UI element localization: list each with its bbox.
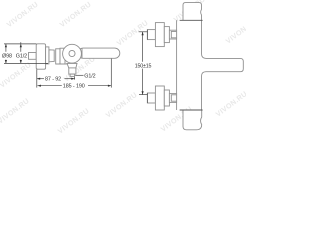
dim vertical 150±15: [142, 32, 144, 62]
extension under spout: [74, 77, 76, 80]
top union: connector A: [147, 30, 155, 40]
svg-text:185 - 190: 185 - 190: [63, 84, 85, 90]
body tube: [60, 48, 65, 64]
svg-text:VIVON.RU: VIVON.RU: [5, 0, 40, 29]
dim line 87-92: [37, 78, 44, 80]
lever handle: [78, 48, 120, 58]
dimension graphics, right view: [139, 32, 148, 95]
knob circle: [63, 44, 82, 63]
dim texts left view: [2, 54, 96, 90]
leader G1/2 spout: [75, 74, 83, 76]
extension line bottom (body): [4, 62, 48, 64]
top union: block C: [164, 27, 169, 43]
spout threaded stub: [70, 74, 74, 76]
tapered sleeve: [49, 50, 54, 62]
arrowheads left view: [5, 44, 112, 87]
svg-text:VIVON.RU: VIVON.RU: [214, 89, 246, 119]
body flange: [56, 49, 60, 64]
spout neck taper: [67, 63, 77, 68]
arrow up 150 top: [142, 32, 144, 35]
bottom flange line: [180, 109, 203, 111]
top union: escutcheon B: [155, 23, 164, 47]
arrow up G1/2 top: [20, 44, 22, 47]
top union: nut D: [169, 30, 176, 39]
svg-text:150±15: 150±15: [135, 63, 152, 69]
svg-text:VIVON.RU: VIVON.RU: [104, 90, 139, 120]
svg-text:VIVON.RU: VIVON.RU: [56, 106, 91, 135]
top union: nut inner bracket: [171, 31, 176, 37]
accent edges: [146, 30, 148, 40]
dim vertical G1/2: [20, 42, 22, 52]
svg-text:G1/2: G1/2: [16, 54, 27, 60]
body outline with spout protrusion: [177, 20, 244, 110]
connector block: [46, 47, 49, 64]
extension line top inlet: [139, 31, 148, 33]
bottom union: nut inner bracket: [171, 95, 176, 101]
extension line bottom inlet: [139, 94, 148, 96]
arrow down Ø98 bottom: [5, 60, 7, 63]
watermark tiles: [0, 0, 259, 136]
lever joint line: [81, 48, 83, 58]
svg-text:VIVON.RU: VIVON.RU: [0, 60, 33, 90]
top flange line: [180, 19, 203, 21]
arrow up Ø98 top: [5, 44, 7, 47]
svg-text:VIVON.RU: VIVON.RU: [58, 0, 93, 29]
bottom union: block C: [164, 90, 169, 106]
bottom union: nut D: [169, 94, 176, 103]
svg-text:Ø98: Ø98: [2, 54, 12, 60]
dim line 185-190: [38, 85, 62, 87]
bottom cap handle with grip notch: [183, 110, 202, 130]
dimension graphics, left view: [4, 42, 111, 87]
arrow down G1/2 bottom: [20, 60, 22, 63]
spout body: [69, 68, 76, 74]
dim vertical Ø98: [5, 44, 7, 52]
bottom union: connector A: [147, 93, 155, 103]
svg-text:VIVON.RU: VIVON.RU: [115, 18, 150, 48]
svg-text:G1/2: G1/2: [84, 73, 95, 79]
extension line top (escutcheon): [4, 43, 36, 45]
tube bottom line under knob: [56, 63, 67, 65]
arrow left 87-92: [37, 78, 40, 80]
bottom union: escutcheon B: [155, 86, 164, 110]
arrow down 150 bottom: [142, 91, 144, 94]
escutcheon housing: [36, 44, 45, 69]
svg-text:VIVON.RU: VIVON.RU: [224, 16, 246, 46]
top cap handle: [183, 3, 202, 21]
arrow right 87-92: [71, 78, 74, 80]
shared left extension line: [36, 70, 38, 88]
svg-text:87 - 92: 87 - 92: [45, 77, 61, 83]
svg-text:VIVON.RU: VIVON.RU: [0, 96, 31, 126]
knob inner circle: [69, 50, 75, 56]
arrow right 185-190: [108, 85, 111, 87]
arrow left 185-190: [38, 85, 41, 87]
extension from lever end: [110, 59, 112, 88]
body column with spout: [147, 3, 243, 130]
wall pipe stub rect: [29, 53, 37, 60]
